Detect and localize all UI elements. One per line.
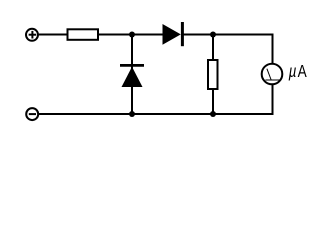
- node B (top of R2 branch): [210, 32, 216, 38]
- node A (top of D1 branch): [129, 32, 135, 38]
- resistor R1 (series, horizontal): [68, 29, 99, 40]
- wire shunt diode branch: [131, 35, 133, 115]
- node C (bottom of D1 branch): [129, 111, 135, 117]
- terminal + (positive input): [26, 29, 38, 41]
- wire shunt resistor branch: [212, 35, 214, 115]
- meter M1 (moving-coil microammeter): [262, 64, 283, 85]
- terminal - (negative input): [26, 108, 38, 120]
- diode D2 (series, pointing right): [163, 22, 183, 46]
- wire bottom rail: [39, 113, 274, 115]
- wire top rail right (diode D2 cathode to top-right corner): [183, 34, 273, 36]
- wire right vertical (corner through meter to bottom rail): [272, 34, 274, 115]
- wire top rail left (terminal to diode D2 anode): [39, 34, 163, 36]
- svg-text:µA: µA: [289, 62, 308, 81]
- node D (bottom of R2 branch): [210, 111, 216, 117]
- diode D1 (shunt, cathode up): [120, 65, 144, 87]
- resistor R2 (shunt, vertical): [208, 60, 218, 89]
